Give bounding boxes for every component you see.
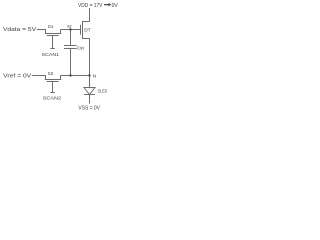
transistor S2 channel [45, 79, 62, 81]
wire S2 source to node N [61, 75, 90, 77]
svg-text:Vdata = 5V: Vdata = 5V [3, 27, 36, 33]
wire VDD rail down to DT drain [89, 8, 91, 22]
wire DT source down to node N [89, 39, 91, 76]
svg-text:SCAN1: SCAN1 [42, 52, 60, 58]
svg-text:OLED: OLED [98, 88, 108, 94]
wire Vref to S2 drain [32, 76, 46, 80]
diode OLED triangle [84, 88, 95, 95]
svg-text:S1: S1 [48, 24, 54, 30]
node N junction dot [88, 74, 90, 76]
wire S1 source to DT gate (node N' run) [61, 29, 81, 31]
transistor DT channel [82, 21, 84, 39]
SCAN1 terminal tick [50, 48, 54, 50]
diode OLED cathode bar [84, 94, 95, 96]
SCAN2 terminal tick [50, 92, 54, 94]
wire Cst bottom to row2 [70, 49, 72, 76]
svg-text:N′: N′ [67, 24, 71, 30]
svg-text:SCAN2: SCAN2 [43, 96, 62, 102]
wire OLED cathode to VSS [89, 95, 91, 104]
transistor S1 channel [45, 33, 62, 35]
wire Vdata to S1 drain [37, 30, 46, 34]
svg-text:Vref = 0V: Vref = 0V [3, 74, 31, 80]
svg-text:VDD = 17V: VDD = 17V [78, 3, 103, 9]
svg-text:S2: S2 [48, 71, 54, 77]
arrow in VDD label [104, 3, 111, 7]
transistor DT drain jog [83, 21, 90, 23]
wire node N' down to Cst [70, 30, 72, 46]
svg-text:Cst: Cst [77, 45, 85, 51]
svg-text:0V: 0V [112, 3, 118, 9]
wire S1 gate lead to SCAN1 [52, 36, 54, 49]
transistor DT source jog [83, 38, 90, 40]
wire node N down to OLED anode [89, 76, 91, 88]
wire S2 gate lead to SCAN2 [52, 82, 54, 93]
transistor S1 gate bar [47, 35, 59, 37]
capacitor Cst top plate [64, 45, 77, 47]
svg-text:N: N [93, 74, 97, 80]
capacitor Cst bottom plate [64, 48, 77, 50]
transistor S2 source arm [60, 76, 62, 80]
svg-text:DT: DT [84, 28, 90, 34]
junction dot Cst bottom on row2 [69, 74, 71, 76]
node N' junction dot [69, 28, 71, 30]
transistor S1 source arm [60, 30, 62, 34]
transistor S2 gate bar [47, 81, 59, 83]
transistor DT gate bar [80, 25, 82, 35]
svg-text:VSS = 0V: VSS = 0V [78, 105, 100, 111]
